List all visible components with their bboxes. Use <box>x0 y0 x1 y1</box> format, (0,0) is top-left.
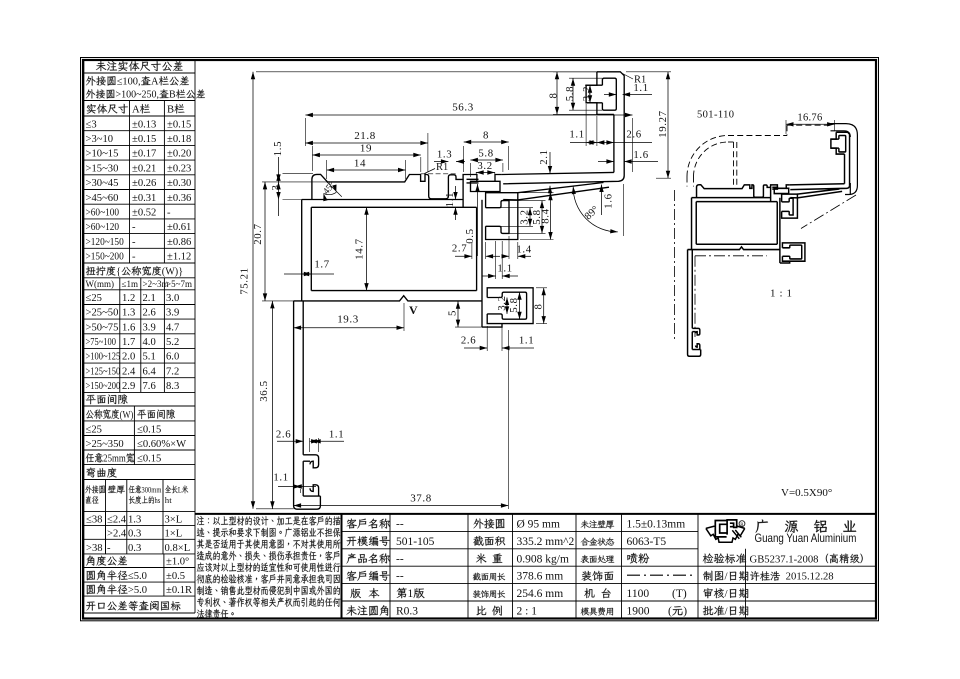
profile leg inner (1:1 view) <box>691 250 694 329</box>
svg-text:4.7: 4.7 <box>166 322 179 333</box>
profile web2 bottom <box>518 187 609 200</box>
profile web2 left link <box>503 199 518 201</box>
svg-text:1.4: 1.4 <box>516 243 531 255</box>
svg-text:1.7: 1.7 <box>314 259 329 271</box>
svg-text:1 : 1: 1 : 1 <box>770 288 793 300</box>
svg-text:8: 8 <box>548 93 560 99</box>
profile 0.5 step (1:1 view) <box>772 187 778 189</box>
svg-text:1.6: 1.6 <box>633 149 648 161</box>
svg-text:>2.4: >2.4 <box>107 528 127 539</box>
svg-text:±0.15: ±0.15 <box>167 119 191 130</box>
svg-text:≤0.15: ≤0.15 <box>137 424 161 435</box>
svg-text:5.8: 5.8 <box>508 297 520 312</box>
svg-text:≤0.60%×W: ≤0.60%×W <box>137 439 186 450</box>
profile box bottom outer (1:1 view) <box>688 247 780 250</box>
svg-text:6.0: 6.0 <box>166 352 179 363</box>
title block grid <box>342 530 699 532</box>
profile leg outer (1:1 view) <box>688 250 701 357</box>
svg-text:±0.61: ±0.61 <box>167 222 191 233</box>
svg-text:7.2: 7.2 <box>166 366 179 377</box>
svg-text:>3~10: >3~10 <box>86 134 114 145</box>
profile channel inner top <box>303 460 310 462</box>
svg-text:±0.15: ±0.15 <box>132 134 156 145</box>
svg-text:ht: ht <box>165 495 172 505</box>
svg-text:-: - <box>132 252 136 263</box>
svg-text:0.908 kg/m: 0.908 kg/m <box>517 553 569 565</box>
svg-text:-: - <box>132 222 136 233</box>
svg-text:5.8: 5.8 <box>564 86 576 101</box>
svg-text:≤2.4: ≤2.4 <box>107 515 127 526</box>
profile leg inner <box>302 301 304 455</box>
svg-text:19: 19 <box>360 143 372 155</box>
svg-text:Ø 95 mm: Ø 95 mm <box>517 519 561 531</box>
profile wall outer (1:1 view) <box>836 132 849 185</box>
svg-text:): ) <box>683 606 687 618</box>
profile arm bottom edge (1:1 view) <box>692 196 771 199</box>
profile T-block left edge <box>462 179 464 207</box>
svg-text:1.6: 1.6 <box>122 322 135 333</box>
svg-text:6.4: 6.4 <box>143 366 157 377</box>
svg-text:±0.17: ±0.17 <box>132 149 156 160</box>
svg-text:3.2: 3.2 <box>519 209 531 224</box>
svg-text:5.8: 5.8 <box>478 148 493 160</box>
svg-text:≤25: ≤25 <box>86 424 102 435</box>
svg-text:2.6: 2.6 <box>626 129 641 141</box>
profile T-block left edge (1:1 view) <box>769 187 772 201</box>
svg-text:>50~75: >50~75 <box>86 322 119 333</box>
profile boss slot lips <box>586 85 602 103</box>
profile box bottom outer <box>294 296 482 301</box>
svg-text:>2~3m: >2~3m <box>143 279 169 289</box>
svg-text:3: 3 <box>270 185 282 191</box>
svg-text:±0.31: ±0.31 <box>132 193 156 204</box>
svg-text:L: L <box>178 485 182 495</box>
svg-text:3.9: 3.9 <box>166 308 179 319</box>
svg-text:3.2: 3.2 <box>496 295 508 310</box>
svg-text:±0.86: ±0.86 <box>167 237 191 248</box>
svg-text:-: - <box>132 237 136 248</box>
svg-text:V=0.5X90°: V=0.5X90° <box>781 487 832 499</box>
svg-text:1.5±0.13mm: 1.5±0.13mm <box>627 519 686 531</box>
profile top arm outline <box>312 174 502 199</box>
svg-text:8: 8 <box>483 130 489 142</box>
svg-text:2.4: 2.4 <box>122 366 136 377</box>
svg-text:0.3: 0.3 <box>128 543 141 554</box>
profile wall inner (1:1 view) <box>843 154 846 184</box>
profile channel bottom lip (1:1 view) <box>692 344 700 350</box>
profile web2 top <box>518 183 604 193</box>
svg-text:R0.3: R0.3 <box>396 606 418 618</box>
svg-text:0.5: 0.5 <box>464 228 476 243</box>
profile pocket1 slot <box>486 201 509 234</box>
svg-text:14.7: 14.7 <box>354 238 366 259</box>
svg-text:>15~30: >15~30 <box>86 163 119 174</box>
profile box cavity (1:1 view) <box>696 202 777 245</box>
profile boss cavity (1:1 view) <box>839 136 846 152</box>
svg-text:±0.18: ±0.18 <box>167 134 191 145</box>
svg-text:1.7: 1.7 <box>122 337 135 348</box>
svg-text:1.1: 1.1 <box>519 335 534 347</box>
profile pocket2 slot <box>487 292 526 319</box>
svg-text:2015.12.28: 2015.12.28 <box>780 571 833 583</box>
svg-text:±0.36: ±0.36 <box>167 193 191 204</box>
svg-text:≤0.15: ≤0.15 <box>137 454 161 465</box>
svg-text:±0.23: ±0.23 <box>167 163 191 174</box>
svg-text:±0.5: ±0.5 <box>166 571 185 582</box>
svg-text:--: -- <box>396 571 404 583</box>
profile pocket1 outline (1:1 view) <box>782 194 798 218</box>
profile box left wall <box>301 200 303 301</box>
svg-text:21.8: 21.8 <box>354 130 376 142</box>
svg-text:>120~150: >120~150 <box>86 236 124 248</box>
svg-text:>150~200: >150~200 <box>86 251 124 263</box>
svg-text:1.2: 1.2 <box>122 293 135 304</box>
profile wall inner <box>613 114 615 172</box>
svg-text:W(mm): W(mm) <box>86 279 115 289</box>
svg-text:B: B <box>167 105 174 116</box>
svg-text:3.9: 3.9 <box>143 322 156 333</box>
svg-text:37.8: 37.8 <box>410 493 432 505</box>
svg-text:1×L: 1×L <box>165 528 183 539</box>
svg-text:≤100,: ≤100, <box>117 77 141 88</box>
svg-text:(T): (T) <box>672 588 687 600</box>
title block text <box>347 519 390 529</box>
svg-text:501-105: 501-105 <box>396 536 435 548</box>
svg-text:>60~100: >60~100 <box>86 207 120 219</box>
left tolerance table grid <box>84 59 196 61</box>
svg-text:1.3: 1.3 <box>437 149 452 161</box>
svg-text:1.5: 1.5 <box>272 141 284 156</box>
svg-text:1.1: 1.1 <box>329 428 344 440</box>
svg-text:20.7: 20.7 <box>252 223 264 244</box>
svg-text:>30~45: >30~45 <box>86 178 119 189</box>
profile leg bottom <box>482 324 502 328</box>
svg-text:B: B <box>169 90 176 101</box>
svg-text:8.3: 8.3 <box>166 381 179 392</box>
svg-text:>125~150: >125~150 <box>86 365 121 377</box>
profile box left wall (1:1 view) <box>690 198 693 250</box>
svg-text:A: A <box>151 77 159 88</box>
profile pocket2 slot (1:1 view) <box>782 245 801 259</box>
svg-text:A: A <box>132 105 140 116</box>
svg-text:3×L: 3×L <box>165 515 183 526</box>
profile T-slot cavity (1:1 view) <box>774 188 788 193</box>
svg-text:GB5237.1-2008: GB5237.1-2008 <box>750 553 819 565</box>
profile boss left+lip (1:1 view) <box>831 132 845 154</box>
svg-text:1.1: 1.1 <box>497 263 512 275</box>
profile web1 top (1:1 view) <box>790 184 845 185</box>
svg-text:≤1m: ≤1m <box>122 279 138 289</box>
svg-text:2.1: 2.1 <box>538 149 550 164</box>
profile boss cavity <box>602 78 616 110</box>
svg-text:1: 1 <box>408 588 414 600</box>
profile boss slot lips (1:1 view) <box>831 139 839 148</box>
svg-text:2 : 1: 2 : 1 <box>517 606 538 618</box>
profile box right wall <box>481 200 483 327</box>
profile boss left+lip <box>586 72 614 115</box>
svg-text:±0.52: ±0.52 <box>132 208 156 219</box>
profile channel top web (1:1 view) <box>692 328 700 335</box>
profile channel inner top (1:1 view) <box>692 330 695 333</box>
svg-text:±0.30: ±0.30 <box>167 178 191 189</box>
svg-text:2.6: 2.6 <box>461 335 476 347</box>
left table column lines <box>129 101 131 264</box>
profile web2 left link (1:1 view) <box>790 196 797 199</box>
svg-text:≤5.0: ≤5.0 <box>128 571 147 582</box>
svg-text:2.1: 2.1 <box>143 293 156 304</box>
svg-text:36.5: 36.5 <box>258 380 270 401</box>
sheet border inner <box>83 60 876 619</box>
svg-text:1.6: 1.6 <box>603 193 615 208</box>
svg-text:±0.13: ±0.13 <box>132 119 156 130</box>
logo english name <box>755 532 857 545</box>
svg-text:5.2: 5.2 <box>166 337 179 348</box>
svg-text:±0.1R: ±0.1R <box>166 585 193 596</box>
svg-text:1.3: 1.3 <box>122 308 135 319</box>
svg-text:254.6 mm: 254.6 mm <box>517 588 564 600</box>
svg-text:≤38: ≤38 <box>86 515 102 526</box>
svg-text:5.1: 5.1 <box>143 352 156 363</box>
profile leg bottom (1:1 view) <box>780 261 790 263</box>
svg-text:>5.0: >5.0 <box>128 585 147 596</box>
svg-text:V: V <box>409 303 418 317</box>
svg-text:0.3: 0.3 <box>128 528 141 539</box>
svg-text:Guang Yuan Aluminium: Guang Yuan Aluminium <box>755 532 857 545</box>
profile web2 top (1:1 view) <box>797 189 839 194</box>
svg-text:25mm: 25mm <box>103 453 126 465</box>
1:1 assembly view extras <box>687 136 728 177</box>
svg-text:2.0: 2.0 <box>122 352 135 363</box>
left tolerance table text <box>96 61 183 71</box>
svg-text:>60~120: >60~120 <box>86 222 120 234</box>
svg-text:>10~15: >10~15 <box>86 149 119 160</box>
svg-text:1.1: 1.1 <box>633 82 648 94</box>
svg-text:19.3: 19.3 <box>337 314 359 326</box>
svg-text:0.8×L: 0.8×L <box>165 543 191 554</box>
svg-text:2.9: 2.9 <box>122 381 135 392</box>
svg-text:16.76: 16.76 <box>797 113 822 124</box>
svg-text:5: 5 <box>447 310 459 316</box>
svg-text:1900: 1900 <box>627 606 650 618</box>
svg-text:±0.21: ±0.21 <box>132 163 156 174</box>
svg-text:(W): (W) <box>120 409 134 421</box>
logo CR mark <box>706 526 745 542</box>
sheet border outer <box>81 58 879 621</box>
profile arm bottom edge <box>302 199 463 201</box>
svg-text:>25~50: >25~50 <box>86 308 119 319</box>
svg-text:>75~100: >75~100 <box>86 336 117 348</box>
svg-text:8: 8 <box>533 304 545 310</box>
profile 0.5 step <box>467 179 479 183</box>
profile pocket1 slot (1:1 view) <box>782 198 793 215</box>
svg-text:R1: R1 <box>436 162 448 173</box>
profile pocket1 outline <box>486 193 518 240</box>
svg-text:±0.26: ±0.26 <box>132 178 156 189</box>
profile box right wall (1:1 view) <box>778 198 781 263</box>
profile channel floor <box>302 461 304 496</box>
profile pocket2 outline (1:1 view) <box>782 243 804 261</box>
svg-text:>38: >38 <box>86 543 103 554</box>
svg-text:5.8: 5.8 <box>531 209 543 224</box>
profile web1 top <box>502 172 614 174</box>
svg-text:501-110: 501-110 <box>697 110 734 121</box>
svg-text:6063-T5: 6063-T5 <box>627 536 667 548</box>
profile wall outer <box>597 72 624 176</box>
logo chinese name <box>756 520 768 533</box>
profile T-slot cavity <box>471 181 501 191</box>
svg-text:>5~7m: >5~7m <box>166 279 192 289</box>
svg-text:≤25: ≤25 <box>86 293 102 304</box>
profile channel top web <box>303 455 318 468</box>
svg-text:19.27: 19.27 <box>657 110 669 137</box>
profile leg outer <box>294 301 321 509</box>
profile channel floor (1:1 view) <box>691 332 694 350</box>
svg-text:≤3: ≤3 <box>86 119 97 130</box>
svg-text:hs: hs <box>155 495 161 505</box>
profile web1 bottom <box>503 176 624 184</box>
svg-text:3.2: 3.2 <box>477 160 492 172</box>
profile box cavity <box>311 207 476 290</box>
svg-text:1.1: 1.1 <box>444 192 456 207</box>
svg-text:4.0: 4.0 <box>143 337 156 348</box>
profile pocket2 outline <box>487 288 533 324</box>
svg-text:1100: 1100 <box>627 588 650 600</box>
svg-text:56.3: 56.3 <box>452 102 474 114</box>
svg-text:14: 14 <box>354 158 366 170</box>
svg-text:--: -- <box>396 553 404 565</box>
svg-text:±1.0°: ±1.0° <box>166 557 189 568</box>
svg-text:±1.12: ±1.12 <box>167 252 191 263</box>
svg-text:--: -- <box>396 519 404 531</box>
svg-text:>25~350: >25~350 <box>86 439 124 450</box>
svg-text:300mm: 300mm <box>142 485 162 495</box>
svg-text:>45~60: >45~60 <box>86 193 119 204</box>
profile web2 bottom (1:1 view) <box>797 191 842 198</box>
svg-text:75.21: 75.21 <box>239 267 251 294</box>
profile web1 bottom (1:1 view) <box>790 185 849 189</box>
svg-text:7.6: 7.6 <box>143 381 156 392</box>
svg-text:2.6: 2.6 <box>143 308 156 319</box>
svg-text:(W)}: (W)} <box>162 267 183 278</box>
note paragraph <box>195 513 876 515</box>
svg-text:3.2: 3.2 <box>581 86 593 101</box>
svg-text:(: ( <box>668 606 672 618</box>
svg-text:>100~125: >100~125 <box>86 351 121 363</box>
profile channel bottom lip <box>303 485 320 496</box>
svg-text:2.6: 2.6 <box>276 428 291 440</box>
dimensions 2:1 view <box>304 118 306 146</box>
svg-text:-: - <box>107 543 111 554</box>
svg-text:1.1: 1.1 <box>569 129 584 141</box>
svg-text:378.6 mm: 378.6 mm <box>517 571 564 583</box>
svg-text:3.0: 3.0 <box>166 293 179 304</box>
svg-text:±0.20: ±0.20 <box>167 149 191 160</box>
profile top arm outline (1:1 view) <box>697 185 790 198</box>
svg-text:1.3: 1.3 <box>128 515 141 526</box>
svg-text:>100~250,: >100~250, <box>116 90 160 101</box>
svg-text:-: - <box>167 208 171 219</box>
svg-text:335.2 mm^2: 335.2 mm^2 <box>517 536 575 548</box>
svg-text:>150~200: >150~200 <box>86 380 121 392</box>
svg-text:1.1: 1.1 <box>273 472 288 484</box>
svg-text:{: { <box>116 267 121 278</box>
